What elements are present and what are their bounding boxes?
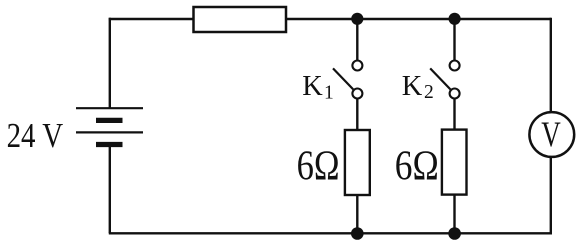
switch K1 top contact circle [352,61,362,71]
wire right vertical from voltmeter to bottom corner [550,158,552,235]
resistor R2 (6 ohm, right branch) [442,130,467,195]
svg-text:1: 1 [324,83,334,104]
svg-text:K: K [302,70,323,102]
wire from resistor R1 to bottom node [356,195,358,233]
battery negative plate 1 [96,118,123,123]
svg-text:24 V: 24 V [7,117,64,155]
node: bottom junction of K2 branch [448,227,461,240]
wire left vertical from top corner to battery [109,18,111,108]
resistor R1 (6 ohm, left branch) [345,130,370,195]
wire from switch K1 to resistor R1 [356,99,358,130]
wire branch K1 from top node to switch [356,19,358,60]
node: top junction of K1 branch [351,13,363,25]
switch K2 bottom contact circle [450,89,460,99]
node: top junction of K2 branch [449,13,461,25]
wire left vertical from battery to bottom corner [109,145,111,233]
switch K2 top contact circle [450,61,460,71]
voltmeter V (circle) [529,112,574,157]
wire bottom horizontal [109,232,552,234]
switch K1 bottom contact circle [352,89,362,99]
wire branch K2 from top node to switch [453,19,455,60]
switch K1 lever [333,68,353,89]
switch K2 lever [430,68,450,89]
svg-text:2: 2 [424,82,434,103]
wire from switch K2 to resistor R2 [453,99,455,130]
svg-text:K: K [402,70,423,102]
svg-text:6Ω: 6Ω [395,143,439,190]
battery positive plate 2 [76,131,143,133]
svg-text:6Ω: 6Ω [297,143,340,190]
wire right vertical from top corner to voltmeter [550,18,552,112]
wire top-left horizontal segment [109,18,194,20]
battery positive plate 1 [76,107,143,109]
wire top horizontal segment from resistor to top-right corner [286,18,551,20]
node: bottom junction of K1 branch [351,227,364,240]
wire from resistor R2 to bottom node [453,195,455,234]
battery negative plate 2 [96,142,123,147]
resistor R (top, unlabeled) [194,7,287,32]
svg-text:V: V [541,114,561,154]
